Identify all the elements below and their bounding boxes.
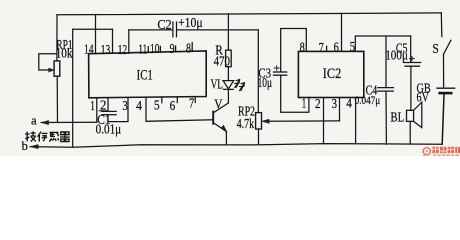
wire IC1 pin4 to transistor base bbox=[146, 98, 213, 122]
svg-text:7: 7 bbox=[319, 40, 325, 55]
wire IC1 pin13 riser bbox=[112, 29, 114, 53]
svg-text:4.7k: 4.7k bbox=[237, 116, 255, 131]
svg-text:8: 8 bbox=[300, 40, 306, 55]
IC2 body bbox=[298, 51, 363, 97]
svg-text:11: 11 bbox=[138, 41, 147, 56]
wire sensor vertical bbox=[72, 29, 74, 147]
potentiometer RP2 body bbox=[256, 113, 262, 129]
char chuan bbox=[38, 132, 48, 142]
svg-text:a: a bbox=[31, 113, 37, 127]
svg-text:C2: C2 bbox=[157, 17, 171, 32]
svg-text:2: 2 bbox=[100, 97, 106, 112]
wire IC2 pin2 to bottom rail bbox=[323, 98, 325, 144]
svg-text:1: 1 bbox=[302, 96, 306, 111]
svg-text:470: 470 bbox=[214, 54, 231, 69]
wire battery to bottom rail bbox=[442, 94, 444, 144]
IC2 pin7 stub bbox=[326, 46, 328, 51]
transistor V collector bbox=[213, 103, 228, 113]
wire C5 to speaker bbox=[410, 66, 412, 110]
switch S blade bbox=[444, 40, 451, 54]
C3 polarity plus bbox=[274, 66, 279, 71]
svg-text:VL: VL bbox=[211, 76, 223, 91]
char jie bbox=[25, 131, 36, 141]
wire speaker to bottom rail bbox=[409, 121, 411, 144]
wire C4 lower to bottom rail bbox=[385, 91, 387, 144]
IC1 body bbox=[89, 51, 207, 98]
battery GB long plate bbox=[437, 87, 455, 89]
node b bottom rail bbox=[30, 144, 442, 148]
wire IC1 pin1 to a-line bbox=[96, 98, 98, 123]
LED VL cathode bar bbox=[224, 88, 234, 90]
svg-text:8: 8 bbox=[186, 41, 191, 56]
speaker BL box bbox=[407, 110, 414, 121]
transistor V base bar bbox=[212, 112, 214, 124]
potentiometer RP1 loop bbox=[39, 54, 57, 70]
resistor R body bbox=[226, 50, 232, 67]
capacitor C5 plates bbox=[404, 62, 421, 64]
svg-text:6: 6 bbox=[170, 98, 176, 113]
wire C5 column bbox=[410, 36, 412, 62]
IC1 pin9 stub bbox=[175, 46, 177, 52]
IC1 pin8 stub bbox=[191, 43, 193, 52]
wire IC2 pin6 to top rail bbox=[341, 13, 343, 51]
node b arrowhead bbox=[30, 144, 38, 148]
svg-text:10μ: 10μ bbox=[258, 75, 272, 90]
wire R to VL bbox=[227, 67, 229, 81]
node a arrowhead bbox=[41, 120, 48, 124]
svg-text:10: 10 bbox=[150, 41, 160, 56]
svg-text:IC2: IC2 bbox=[323, 66, 341, 82]
svg-text:5: 5 bbox=[350, 39, 356, 54]
svg-text:5: 5 bbox=[154, 97, 160, 112]
capacitor C2 plates bbox=[172, 22, 174, 37]
wire VL to collector bbox=[227, 89, 229, 103]
wire RP1 bottom to a-line bbox=[56, 76, 58, 122]
svg-text:6: 6 bbox=[334, 40, 340, 55]
svg-text:10k: 10k bbox=[56, 45, 73, 60]
label sensor chinese text bbox=[25, 131, 70, 141]
wire RP2 wiper line to IC2 pin3 bbox=[268, 120, 340, 122]
wire RP2 bottom to rail bbox=[258, 129, 260, 145]
wire IC2 pin4 to bottom rail bbox=[355, 98, 357, 144]
wire R column from top rail bbox=[227, 14, 229, 50]
RP2 wiper arrowhead bbox=[262, 119, 270, 123]
IC1 pin11 stub bbox=[147, 47, 149, 53]
wire top rail bbox=[57, 13, 441, 15]
svg-text:IC1: IC1 bbox=[137, 67, 153, 83]
IC1 pin5 stub bbox=[161, 97, 163, 103]
char gan bbox=[49, 132, 58, 142]
svg-text:3: 3 bbox=[122, 98, 128, 113]
capacitor C4 plates bbox=[378, 87, 394, 89]
wire C2 line from pin12 bbox=[129, 29, 173, 31]
svg-text:14: 14 bbox=[84, 42, 94, 57]
svg-text:2: 2 bbox=[315, 96, 321, 111]
svg-text:S: S bbox=[432, 41, 438, 56]
switch S wire bottom bbox=[443, 54, 445, 87]
svg-text:13: 13 bbox=[101, 42, 111, 57]
svg-text:0.047μ: 0.047μ bbox=[355, 95, 381, 107]
wire emitter to bottom rail bbox=[225, 132, 227, 145]
transistor V emitter arrowhead bbox=[221, 125, 227, 132]
wire IC2 pin5 to C5 bbox=[355, 36, 410, 51]
IC1 pin7 stub bbox=[194, 97, 196, 103]
wire left drop to RP1 bbox=[56, 15, 58, 61]
pin2 underline bbox=[99, 110, 108, 112]
svg-text:0.01μ: 0.01μ bbox=[96, 122, 122, 137]
svg-text:1: 1 bbox=[90, 98, 94, 113]
battery GB short plate bbox=[440, 92, 452, 95]
node a terminal line bbox=[41, 121, 97, 123]
svg-text:4: 4 bbox=[136, 98, 142, 113]
wire C3 bottom to IC2 pin1 bbox=[281, 75, 309, 112]
IC1 pin6 stub bbox=[176, 97, 178, 103]
svg-text:7: 7 bbox=[189, 96, 195, 111]
IC1 pin10 stub bbox=[159, 46, 161, 52]
svg-text:6V: 6V bbox=[417, 89, 430, 104]
svg-text:12: 12 bbox=[118, 42, 128, 57]
watermark logo bbox=[423, 147, 460, 156]
wire C1 bottom to IC1 pin3 bbox=[108, 98, 128, 122]
switch S wire top bbox=[440, 13, 443, 37]
C5 polarity plus bbox=[410, 56, 415, 61]
potentiometer RP1 body bbox=[54, 61, 60, 76]
svg-text:4: 4 bbox=[346, 96, 352, 111]
transistor V emitter bbox=[213, 123, 226, 132]
wire IC1 pin12 riser bbox=[128, 30, 130, 53]
svg-text:V: V bbox=[214, 97, 223, 112]
char qi bbox=[60, 132, 70, 142]
svg-text:9: 9 bbox=[170, 41, 175, 56]
wire C2 line drop to RP2 bbox=[257, 30, 259, 113]
speaker BL cone bbox=[414, 102, 422, 127]
wire IC2 pin3 to RP2 wiper line bbox=[339, 98, 341, 121]
wire C4 upper bbox=[385, 36, 387, 88]
svg-text:BL: BL bbox=[390, 111, 404, 126]
wire IC1 pin14 riser to top rail bbox=[95, 15, 97, 54]
wire IC1 pin2 to C1 bbox=[107, 98, 109, 112]
wire IC2 pin8 to C3 top bbox=[281, 29, 307, 72]
LED VL light arrows bbox=[235, 80, 240, 88]
LED VL triangle bbox=[223, 81, 234, 89]
capacitor C3 plates bbox=[274, 71, 287, 73]
potentiometer RP1 wiper arrowhead bbox=[49, 68, 54, 72]
svg-text:100μ: 100μ bbox=[385, 47, 408, 62]
wire left segment to pin13 bbox=[73, 28, 113, 30]
svg-text:3: 3 bbox=[332, 96, 338, 111]
capacitor C1 plates bbox=[102, 110, 116, 112]
svg-text:+10μ: +10μ bbox=[178, 15, 203, 30]
